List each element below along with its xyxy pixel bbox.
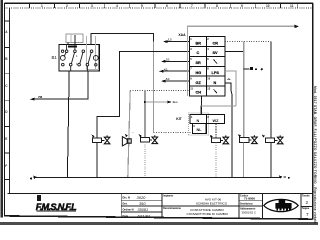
- nc mark pin12: [214, 89, 218, 93]
- wire coil lead 2: [74, 35, 76, 44]
- maker logo train wheels: [276, 209, 291, 211]
- wire connector to KIT: [201, 96, 203, 115]
- svg-text:Dis. N: Dis. N: [123, 196, 130, 200]
- svg-text:11: 11: [290, 4, 294, 8]
- svg-text:N: N: [214, 81, 217, 85]
- valve V5: [277, 135, 283, 143]
- svg-text:F: F: [5, 164, 7, 168]
- KIT gray shell: [188, 113, 208, 135]
- maker logo train: [275, 200, 291, 209]
- wire GZ pin: [165, 80, 189, 82]
- arrow Y5: [262, 134, 265, 137]
- cell labels XAA: [196, 41, 220, 94]
- coil Y4: [240, 138, 250, 143]
- svg-text:WZ: WZ: [213, 119, 220, 123]
- wire HG pin: [163, 70, 189, 72]
- svg-text:CONVERTITORE DI CAMBIO: CONVERTITORE DI CAMBIO: [187, 212, 229, 216]
- horn H1: [122, 137, 131, 146]
- coil Y3: [211, 138, 220, 143]
- svg-text:3: 3: [91, 4, 93, 8]
- wire Y4 to bus gray: [243, 142, 245, 177]
- arrow Y2: [139, 134, 142, 137]
- arrowhead label branch: [168, 101, 172, 104]
- svg-text:1.2: 1.2: [168, 38, 172, 42]
- node bus left end: [33, 176, 37, 179]
- horn hatch: [121, 137, 123, 146]
- arrowhead GZ: [161, 80, 166, 83]
- zone letters left: [5, 30, 8, 168]
- relay coil gray box above B1: [66, 34, 83, 43]
- wire KIT N feed gray: [201, 106, 237, 115]
- svg-text:3.1: 3.1: [166, 57, 170, 61]
- svg-text:N: N: [197, 119, 200, 123]
- svg-text:Tavola: Tavola: [302, 195, 310, 198]
- svg-text:7M: 7M: [38, 95, 43, 99]
- zone ruler left line: [8, 8, 10, 194]
- link Y4 valve: [249, 139, 252, 141]
- zone numbers top: [41, 4, 294, 8]
- svg-text:1: 1: [41, 4, 43, 8]
- svg-text:10: 10: [266, 4, 270, 8]
- arrowhead BR: [163, 40, 168, 43]
- wire BR pin: [167, 41, 189, 43]
- wire C2 branch: [144, 91, 146, 138]
- connector XAA body: [189, 37, 225, 96]
- B1 gray ghost outline: [86, 36, 99, 70]
- svg-text:Mod. 3517 STAB. GRAF. F.LLI PO: Mod. 3517 STAB. GRAF. F.LLI POZZO SALUZZ…: [313, 86, 317, 225]
- wire SV right: [225, 51, 244, 53]
- svg-text:2: 2: [66, 4, 68, 8]
- svg-text:Denominazione: Denominazione: [163, 207, 181, 210]
- junction dot: [144, 101, 146, 103]
- arrowhead left branch: [30, 98, 35, 101]
- wire N right down to bus: [225, 83, 232, 177]
- scan edge bar bottom: [0, 222, 318, 225]
- svg-text:E: E: [5, 137, 7, 141]
- wire NL dotted: [154, 131, 193, 133]
- coil Y5: [266, 138, 275, 143]
- valve V4: [252, 135, 258, 143]
- svg-text:Data: Data: [123, 214, 129, 218]
- connector XAA gray shell: [187, 26, 295, 96]
- wire label branch gray: [145, 101, 168, 103]
- arrowhead SR: [161, 60, 166, 63]
- connector KIT body: [190, 115, 224, 134]
- wire horn drop gray: [128, 91, 130, 178]
- link Y2 valve: [150, 139, 152, 141]
- valve V1: [104, 135, 110, 143]
- B1 thick bar: [68, 46, 77, 48]
- node bus right end: [279, 175, 283, 178]
- svg-text:HG: HG: [196, 71, 202, 75]
- wire coil lead 1: [67, 43, 69, 45]
- svg-text:B1: B1: [52, 55, 58, 60]
- svg-text:LPS: LPS: [212, 71, 220, 75]
- scan edge bar left: [1, 0, 3, 218]
- svg-text:6/11/84: 6/11/84: [138, 214, 150, 218]
- wire KIT HZ down: [215, 124, 217, 139]
- company logo mark: [37, 195, 41, 201]
- wire B1 down to bus: [67, 71, 69, 178]
- wire CR dotted: [225, 41, 271, 43]
- bus N bottom: [34, 176, 282, 178]
- wire SR pin: [165, 60, 189, 62]
- arrowhead HG: [159, 70, 164, 73]
- svg-text:Ordine N: Ordine N: [123, 208, 134, 212]
- svg-text:GZ: GZ: [196, 81, 202, 85]
- nc mark pin6: [214, 60, 218, 64]
- wire Y3 to bus dotted: [215, 143, 217, 178]
- arrow horn: [125, 134, 128, 137]
- svg-text:Impianto: Impianto: [163, 195, 174, 198]
- svg-text:4.1: 4.1: [164, 67, 168, 71]
- link Y1 valve: [102, 139, 105, 141]
- B1 contacts: [60, 44, 98, 71]
- label N wire ticks: [227, 79, 230, 80]
- svg-text:SCHEMA ELETTRICO: SCHEMA ELETTRICO: [196, 202, 228, 206]
- wire Y5 to bus: [270, 143, 272, 178]
- svg-text:3020: 3020: [137, 195, 147, 200]
- maker logo lens: [264, 199, 298, 211]
- svg-text:Sostituisce: Sostituisce: [240, 202, 253, 205]
- svg-text:35081/82 C: 35081/82 C: [242, 210, 256, 214]
- svg-text:Det.: Det.: [123, 202, 128, 206]
- company logo underline: [37, 210, 77, 212]
- coil Y1: [93, 138, 102, 143]
- zone ruler top dotted line: [5, 7, 313, 9]
- wire B1 down left branch: [34, 71, 88, 99]
- svg-text:SR: SR: [196, 61, 202, 65]
- arrow Y3: [210, 135, 213, 138]
- arrow Y4: [238, 134, 241, 137]
- wire C pin long: [97, 52, 189, 139]
- wire CR down to coil Y5: [270, 42, 272, 139]
- wire CH dotted: [130, 90, 189, 92]
- svg-text:CR: CR: [213, 41, 219, 45]
- svg-text:7: 7: [191, 4, 193, 8]
- wire Y2 to bus dotted: [144, 142, 146, 177]
- zone ticks left: [4, 21, 9, 179]
- svg-text:8: 8: [216, 4, 218, 8]
- link Y5 valve: [275, 139, 278, 141]
- wire Y1 to bus: [96, 143, 98, 178]
- label SV wire: [244, 68, 250, 70]
- svg-text:5: 5: [141, 4, 143, 8]
- svg-text:4: 4: [116, 4, 118, 8]
- relay B1 body: [59, 44, 99, 71]
- svg-text:CH: CH: [196, 91, 202, 95]
- valve V3: [223, 135, 229, 143]
- svg-text:35081: 35081: [138, 208, 149, 212]
- svg-text:4a s: 4a s: [173, 100, 179, 104]
- zone ticks top: [29, 3, 297, 8]
- pin numbers XAA: [190, 37, 211, 90]
- valve V2: [152, 135, 158, 143]
- arrow Y1: [92, 135, 95, 138]
- svg-text:5.1: 5.1: [166, 77, 170, 81]
- svg-text:XAA: XAA: [178, 33, 186, 37]
- arrowhead gray feeder: [295, 25, 300, 29]
- svg-text:C: C: [197, 51, 200, 55]
- svg-text:350: 350: [139, 201, 146, 206]
- svg-text:6: 6: [166, 4, 168, 8]
- svg-text:2: 2: [306, 200, 309, 205]
- wire B1 top loop: [91, 34, 154, 45]
- svg-text:KIT: KIT: [176, 117, 182, 121]
- svg-text:SV: SV: [213, 51, 219, 55]
- svg-text:BR: BR: [196, 41, 202, 45]
- pin numbers KIT: [191, 115, 209, 128]
- svg-text:Segue: Segue: [302, 207, 310, 210]
- svg-text:9: 9: [241, 4, 243, 8]
- wire gray drop to NL dotted: [153, 42, 155, 133]
- svg-text:NL: NL: [197, 128, 203, 132]
- coil Y2: [141, 138, 150, 143]
- link Y3 valve: [220, 139, 223, 141]
- svg-text:7: 7: [306, 212, 309, 217]
- wire LPS right: [225, 71, 236, 106]
